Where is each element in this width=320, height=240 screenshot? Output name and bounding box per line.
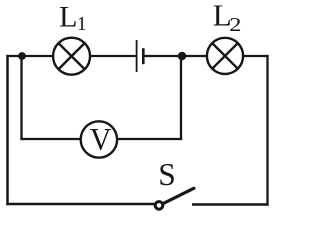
wire left outer vertical (6, 55, 9, 205)
svg-text:V: V (90, 121, 111, 157)
voltmeter U1 (81, 121, 117, 157)
wire bottom right segment (192, 203, 269, 205)
switch S pivot (155, 202, 163, 210)
battery long plate (positive) (136, 40, 138, 72)
svg-text:L: L (59, 1, 77, 34)
wire inner left vertical (voltmeter branch) (20, 56, 22, 140)
wire L1 to battery (89, 55, 136, 57)
lamp L1 (53, 38, 90, 75)
wire voltmeter branch right horizontal (116, 138, 182, 140)
wire top-left horizontal segment (6, 55, 54, 57)
wire bottom left segment (6, 203, 156, 205)
node junction dot right (178, 52, 187, 61)
svg-text:S: S (158, 157, 176, 192)
wire L2 to top-right corner (242, 55, 269, 57)
svg-text:2: 2 (229, 13, 241, 35)
battery short plate (negative) (142, 48, 145, 64)
wire inner right vertical (voltmeter branch) (180, 56, 182, 140)
switch S lever (163, 188, 194, 204)
wire voltmeter branch left horizontal (20, 138, 82, 140)
wire battery to junction (145, 55, 209, 57)
lamp L2 (207, 38, 243, 74)
wire right vertical (266, 55, 268, 206)
svg-text:1: 1 (77, 14, 87, 35)
node junction dot left (18, 52, 26, 60)
